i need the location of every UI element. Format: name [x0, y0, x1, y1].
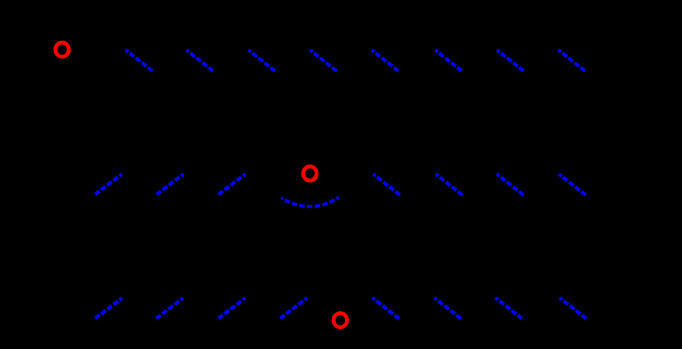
hydrogen bond: bottom row right segment 3 — [496, 298, 523, 319]
hydrogen bond: middle row left segment 3 — [219, 174, 246, 194]
hydrogen bond: bottom row right segment 1 — [372, 298, 399, 319]
hydrogen bond: bottom row left segment 4 — [280, 298, 307, 318]
hydrogen bond: bottom row right segment 4 — [560, 298, 587, 319]
hydrogen bond: top row segment 7 — [497, 50, 524, 71]
hydrogen bond: middle row right segment 2 — [436, 174, 463, 195]
hydrogen bond: top row segment 3 — [248, 50, 275, 71]
hydrogen bond: middle row left segment 1 — [95, 174, 122, 194]
hydrogen bond: top row segment 4 — [310, 50, 337, 71]
oxygen atom O1 (top left) — [55, 43, 68, 57]
hydrogen bond: top row segment 5 — [372, 50, 399, 71]
hydrogen bond: top row segment 1 — [126, 50, 153, 71]
oxygen atom O2 (middle row) — [303, 166, 316, 180]
hydrogen bond: middle row right segment 4 — [559, 174, 586, 195]
hydrogen bond: top row segment 8 — [558, 50, 585, 71]
hydrogen bond: middle row left segment 2 — [157, 174, 184, 194]
oxygen atom O3 (bottom row) — [334, 313, 347, 327]
hydrogen bond: middle row right segment 3 — [497, 174, 524, 195]
hydrogen bond arc (middle row, below oxygen O2) — [281, 197, 339, 206]
hydrogen bond: bottom row right segment 2 — [434, 298, 461, 319]
hydrogen bond: bottom row left segment 1 — [95, 298, 122, 318]
hydrogen bond: middle row right segment 1 — [373, 174, 400, 195]
hydrogen bond: bottom row left segment 3 — [218, 298, 245, 318]
hydrogen bond: bottom row left segment 2 — [156, 298, 183, 318]
hydrogen bond: top row segment 6 — [435, 50, 462, 71]
hydrogen bond: top row segment 2 — [186, 50, 213, 71]
